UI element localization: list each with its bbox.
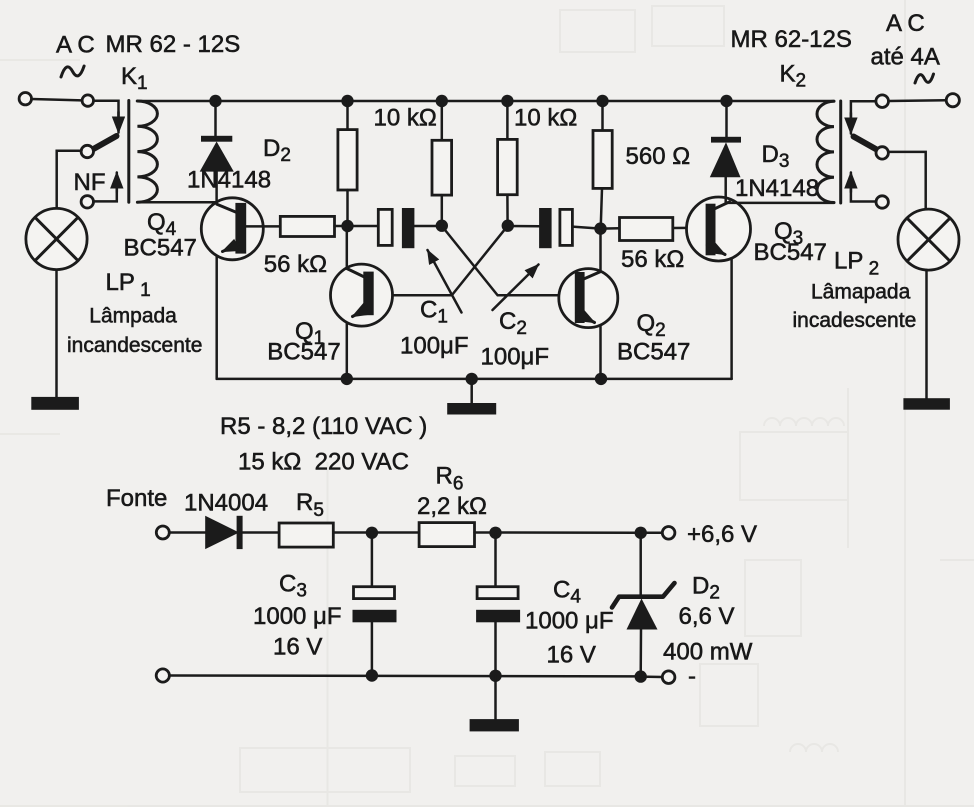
arrow K2 NF [850, 173, 853, 193]
resistor R2 10k [432, 140, 452, 195]
wire top supply bus [137, 100, 834, 103]
wire node E to R6 [372, 531, 419, 534]
svg-text:56 kΩ: 56 kΩ [264, 251, 327, 278]
node Q2 emitter junction [595, 373, 607, 385]
svg-text:1N4148: 1N4148 [187, 167, 271, 194]
arrow K2 common actuation [850, 113, 853, 134]
wire zener from node [639, 533, 642, 597]
node R3 top junction [501, 95, 513, 107]
wire 56k right to Q3 base [673, 227, 706, 230]
wire node C to Q1 base diagonal [374, 226, 508, 296]
relay K1 coil [137, 101, 157, 202]
relay K1 NF contact [81, 196, 93, 208]
capacitor C2 100uF [539, 208, 572, 248]
wire bus to R1 [346, 101, 349, 130]
lamp LP2 [898, 209, 959, 270]
wire R5 to node E [333, 531, 372, 534]
wire K1 common feed [94, 101, 119, 120]
resistor 56k left [280, 216, 334, 236]
node Q1 emitter junction [341, 373, 353, 385]
wire Q2 collector to node D [599, 229, 602, 272]
transistor Q1 BC547 [331, 264, 393, 326]
svg-text:1N4148: 1N4148 [735, 175, 819, 202]
relay K2 NA contact [876, 147, 888, 159]
wire D3 to Q3 collector [724, 177, 727, 203]
transistor Q3 BC547 [687, 197, 751, 261]
svg-text:6,6 V: 6,6 V [679, 603, 735, 630]
svg-text:1000 μF: 1000 μF [525, 608, 614, 635]
wire R4 to node D [601, 188, 602, 228]
node F junction [489, 527, 501, 539]
wire node D to 56k right [601, 227, 620, 230]
svg-text:10 kΩ: 10 kΩ [374, 105, 437, 132]
wire bottom rail [170, 674, 641, 677]
relay K2 AC terminal 2 [946, 94, 959, 107]
wire Q4 emitter to bottom bus [215, 256, 218, 379]
capacitor C3 1000uF [353, 587, 397, 623]
svg-text:incandescente: incandescente [67, 334, 202, 357]
diode D3 wire from bus [725, 101, 728, 138]
svg-text:R5 - 8,2 (110 VAC ): R5 - 8,2 (110 VAC ) [220, 413, 427, 440]
wire K2 NF contact stub [851, 186, 876, 202]
wire to plus terminal [641, 532, 663, 535]
wire node E to C3 [371, 533, 374, 587]
capacitor C4 1000uF [476, 587, 520, 623]
svg-text:2,2 kΩ: 2,2 kΩ [417, 493, 487, 520]
wire bus to R4 [601, 101, 604, 131]
ground multivibrator [447, 403, 496, 415]
ground supply [470, 719, 519, 731]
wire node A to C1 [348, 225, 379, 228]
node C junction [502, 220, 514, 232]
svg-text:NF: NF [74, 169, 106, 196]
wire C4 to bottom rail [494, 622, 497, 675]
wire bus to R3 [506, 101, 509, 139]
svg-text:15 kΩ 220 VAC: 15 kΩ 220 VAC [238, 449, 409, 476]
node E junction [366, 527, 378, 539]
relay K2 switch arm [854, 137, 878, 151]
node C4 bottom junction [489, 670, 501, 682]
arrow C2 label pointer [493, 265, 539, 311]
wire ground stub [470, 379, 473, 404]
wire D2 to Q4 collector [215, 171, 218, 203]
svg-text:BC547: BC547 [267, 339, 340, 366]
node zener top junction [635, 527, 647, 539]
node A junction [341, 220, 353, 232]
node R2 top junction [436, 95, 448, 107]
svg-text:Fonte: Fonte [106, 485, 167, 512]
wire C1 to node B [414, 225, 441, 228]
resistor R5 [279, 523, 333, 547]
wire R2 to node B [441, 195, 444, 226]
wire Q2 emitter to bottom bus [599, 327, 602, 379]
wire bus to R2 [441, 101, 444, 140]
wire to minus terminal [641, 675, 663, 678]
node ground junction [466, 373, 478, 385]
lamp LP1 [26, 208, 87, 269]
svg-text:100μF: 100μF [400, 333, 469, 360]
transistor Q2 BC547 [559, 269, 618, 328]
resistor 56k right [620, 218, 673, 241]
svg-text:até 4A: até 4A [871, 44, 940, 71]
node zener bottom junction [635, 670, 647, 682]
relay K2 core bar [839, 101, 842, 203]
AC sine symbol left [61, 66, 84, 77]
node D junction [594, 222, 606, 234]
relay K2 AC terminal 1 [876, 95, 889, 108]
wire zener to bottom rail [639, 629, 642, 676]
wire C4 ground stub [494, 676, 497, 720]
wire Q4 base [246, 225, 280, 228]
wire R1 to node A [346, 190, 349, 226]
wire K2 NA contact to lamp LP2 [889, 152, 926, 209]
svg-text:A C: A C [886, 10, 925, 37]
relay K2 NF contact [876, 196, 888, 208]
terminal minus [662, 671, 675, 684]
wire D1 to R5 [243, 531, 280, 534]
svg-text:Lâmapada: Lâmapada [811, 281, 911, 304]
node B junction [436, 220, 448, 232]
svg-text:BC547: BC547 [754, 239, 827, 266]
svg-text:1000 μF: 1000 μF [253, 603, 342, 630]
transistor Q4 BC547 [201, 198, 263, 260]
AC sine symbol right [915, 74, 934, 83]
wire R6 to output [475, 531, 641, 534]
terminal Fonte plus [156, 526, 169, 539]
node R1 top junction [341, 95, 353, 107]
relay K2 coil [817, 101, 834, 202]
wire K2 common feed [851, 101, 876, 120]
arrow K1 NF [116, 173, 119, 193]
wire node F to C4 [494, 533, 497, 587]
svg-text:1N4004: 1N4004 [184, 490, 268, 517]
wire K1 coil bottom to Q4 collector [137, 201, 215, 204]
wire LP2 to ground [925, 270, 928, 399]
diode D2 wire from bus [214, 101, 217, 137]
node D3 top junction [720, 95, 732, 107]
wire K1 NF contact stub [93, 186, 117, 201]
wire K2 terminal link [889, 99, 947, 102]
diode D3 1N4148 [710, 137, 741, 177]
svg-text:MR 62 - 12S: MR 62 - 12S [106, 31, 241, 58]
wire bottom bus [217, 378, 732, 381]
svg-text:16 V: 16 V [547, 642, 596, 669]
relay K1 NA contact [81, 145, 93, 157]
wire Q1 collector to node A [346, 226, 349, 269]
resistor R3 10k [498, 139, 518, 194]
svg-text:-: - [688, 663, 696, 690]
node R4 top junction [596, 95, 608, 107]
relay K1 AC terminal 1 [19, 93, 31, 105]
wire K1 NA contact to lamp LP1 [57, 151, 82, 209]
svg-text:Lâmpada: Lâmpada [89, 305, 177, 328]
node D2 top junction [209, 95, 221, 107]
wire R3 to node C [506, 195, 509, 226]
ground LP2 [903, 398, 950, 410]
node C3 bottom junction [366, 669, 378, 681]
zener diode D2 6,6V [612, 583, 675, 630]
svg-text:A C: A C [56, 32, 95, 59]
svg-text:incadescente: incadescente [793, 309, 917, 332]
diode D1 1N4004 [205, 516, 242, 549]
wire node C to C2 [508, 225, 539, 228]
diode D2 1N4148 [200, 136, 234, 172]
svg-text:100μF: 100μF [481, 344, 550, 371]
resistor R6 [419, 523, 474, 547]
wire C2 to node D [572, 227, 600, 229]
resistor R1 10k [338, 130, 357, 190]
relay K1 core bar [127, 101, 130, 203]
svg-text:+6,6 V: +6,6 V [687, 521, 757, 548]
svg-text:10 kΩ: 10 kΩ [514, 105, 577, 132]
arrow K1 common actuation [117, 112, 120, 133]
svg-text:MR 62-12S: MR 62-12S [731, 26, 852, 53]
svg-text:BC547: BC547 [124, 235, 197, 262]
capacitor C1 100uF [378, 208, 414, 248]
relay K1 AC terminal 2 [82, 95, 93, 106]
wire node B to Q2 base diagonal [442, 226, 575, 295]
wire Fonte to D1 [170, 531, 207, 534]
terminal Fonte minus [156, 669, 169, 682]
relay K1 switch arm [93, 136, 117, 150]
svg-text:56 kΩ: 56 kΩ [621, 246, 684, 273]
wire K2 coil bottom to Q3 collector [726, 202, 834, 205]
resistor R4 560 ohm [593, 131, 612, 189]
wire C3 to bottom rail [371, 622, 374, 675]
arrow C1 label pointer [428, 250, 462, 313]
svg-text:560 Ω: 560 Ω [626, 143, 691, 170]
ground LP1 [31, 397, 79, 410]
wire Q3 emitter to bottom bus [730, 259, 733, 379]
svg-text:BC547: BC547 [617, 339, 690, 366]
svg-text:16 V: 16 V [273, 634, 322, 661]
wire LP1 to ground [55, 270, 58, 398]
svg-text:400 mW: 400 mW [663, 639, 753, 666]
wire K1 terminal link [32, 99, 82, 100]
wire 56k to node A [335, 225, 348, 228]
terminal plus 6,6V [662, 527, 675, 540]
wire Q1 emitter to bottom bus [346, 323, 349, 379]
